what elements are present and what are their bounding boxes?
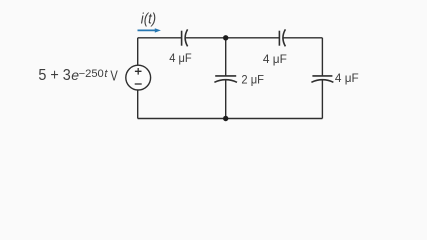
svg-text:V: V (110, 68, 118, 84)
svg-text:−250: −250 (79, 68, 104, 80)
svg-text:5 + 3: 5 + 3 (38, 67, 70, 84)
svg-text:4 μF: 4 μF (335, 71, 359, 85)
svg-text:2 μF: 2 μF (241, 73, 264, 87)
svg-text:4 μF: 4 μF (263, 52, 287, 66)
svg-text:i(t): i(t) (141, 11, 156, 27)
svg-text:4 μF: 4 μF (169, 51, 192, 65)
